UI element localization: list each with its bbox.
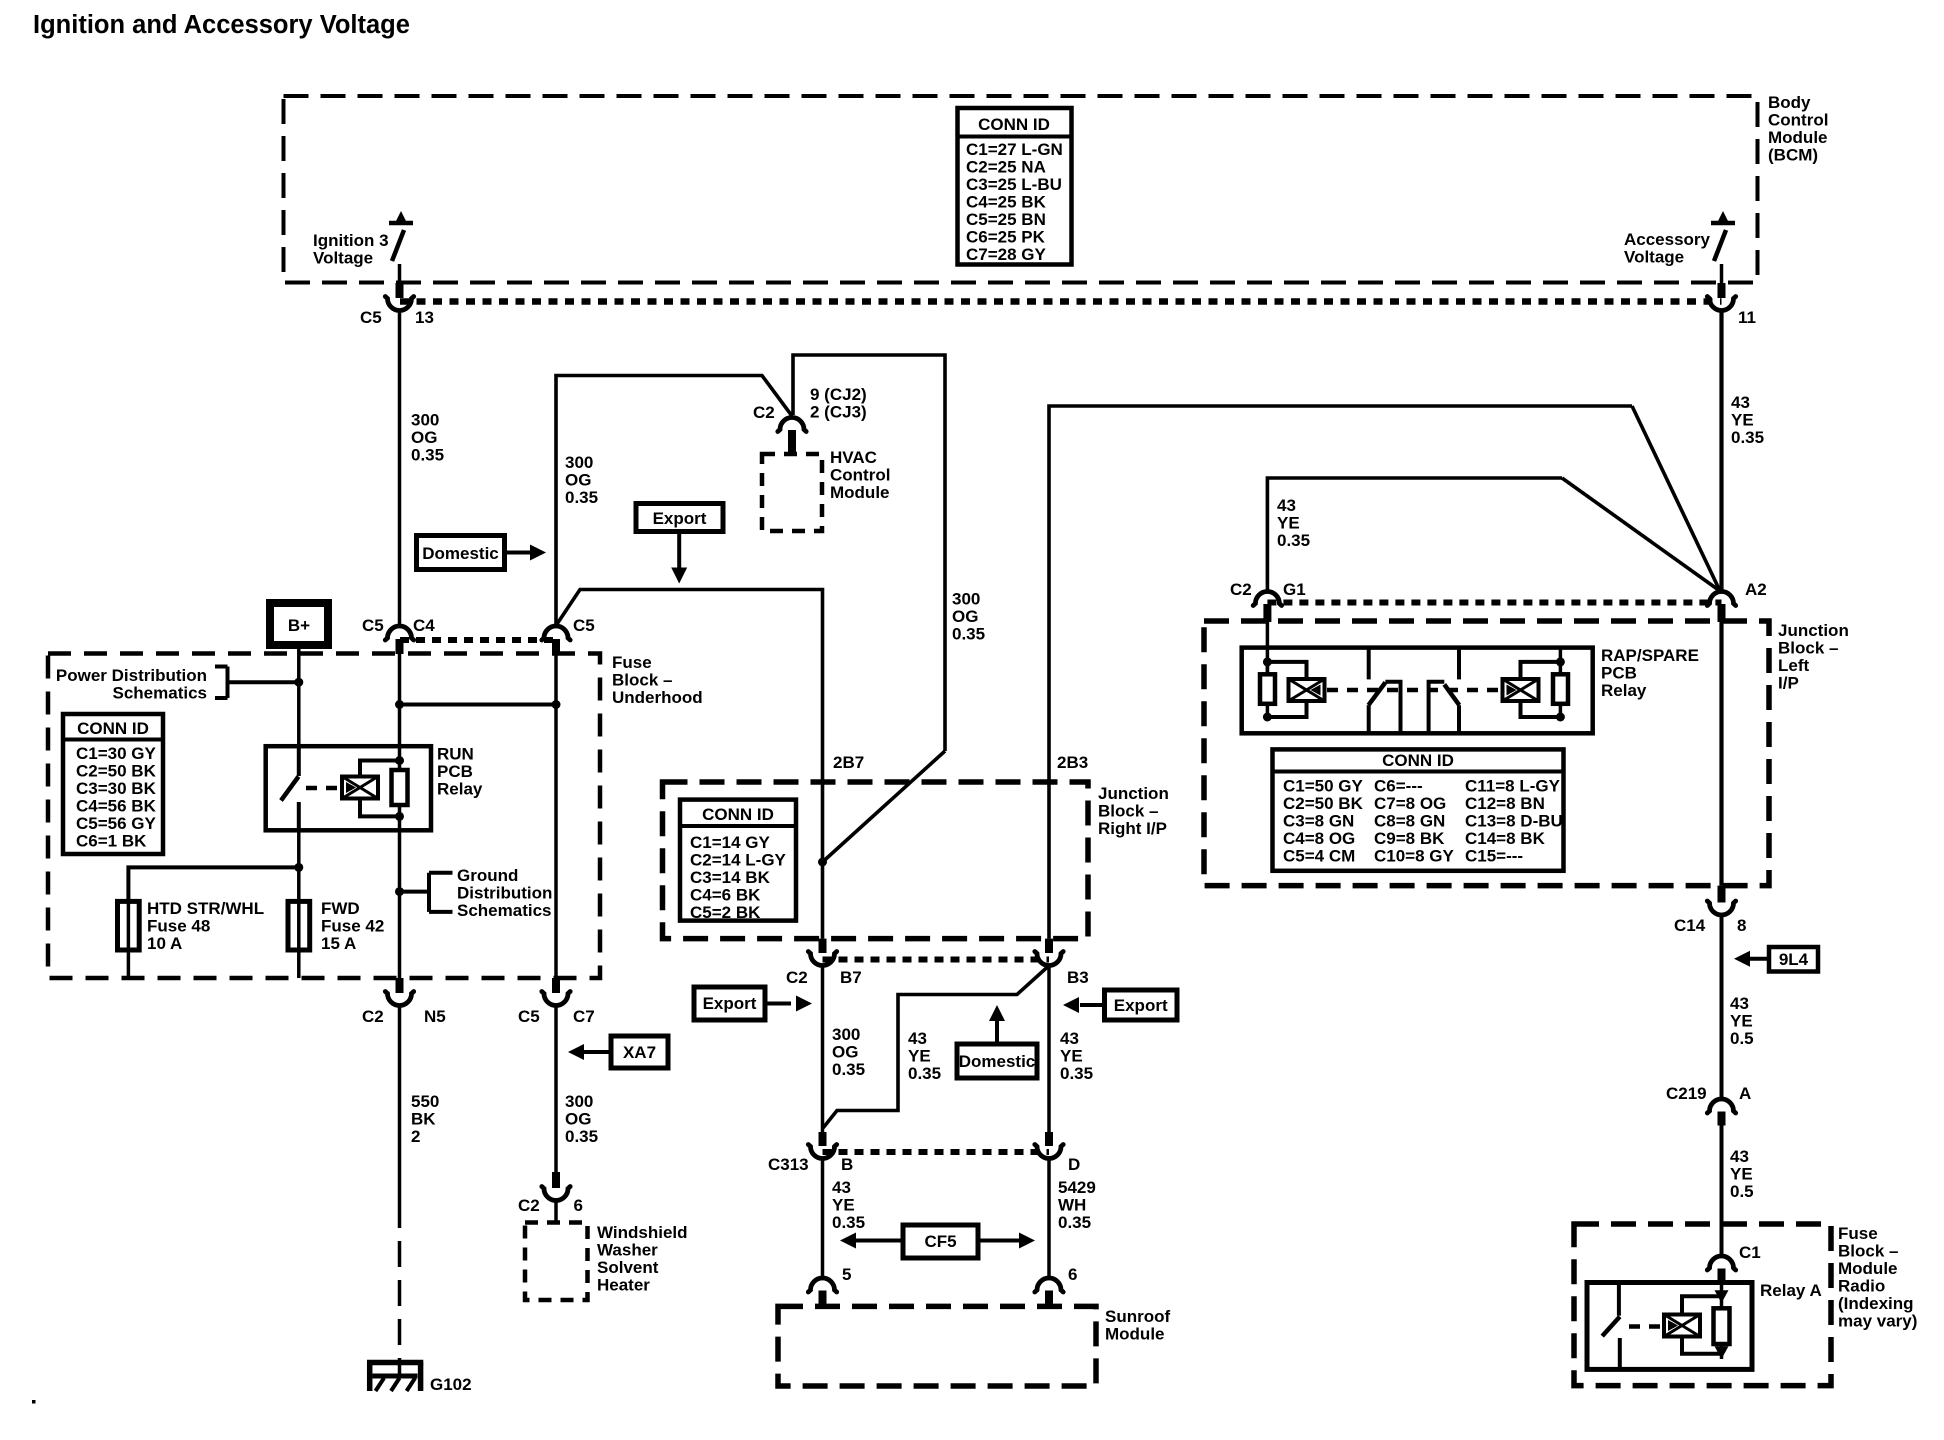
svg-text:11: 11	[1738, 308, 1756, 327]
svg-text:HTD STR/WHL: HTD STR/WHL	[147, 899, 264, 918]
svg-text:Module: Module	[1838, 1259, 1898, 1278]
wire B3 down to D	[1047, 966, 1051, 1133]
connector A2	[1707, 580, 1766, 622]
svg-text:Right I/P: Right I/P	[1098, 819, 1167, 838]
junction dot relay bottom	[395, 812, 404, 821]
RAP relay right coil	[1503, 679, 1539, 701]
stray scan speck	[32, 1400, 36, 1404]
RAP relay left coil links	[1267, 662, 1306, 717]
windshield washer solvent heater dashed box	[525, 1223, 588, 1301]
wire C5 down through fuse block	[554, 654, 558, 979]
svg-text:B: B	[841, 1155, 853, 1174]
svg-text:RAP/SPARE: RAP/SPARE	[1601, 646, 1699, 665]
flag Domestic (middle)	[957, 1005, 1037, 1078]
svg-text:C5: C5	[573, 616, 595, 635]
svg-text:15 A: 15 A	[321, 934, 356, 953]
svg-text:OG: OG	[565, 471, 591, 490]
svg-text:43: 43	[1277, 496, 1296, 515]
svg-text:C3=14 BK: C3=14 BK	[690, 868, 771, 887]
svg-text:C219: C219	[1666, 1084, 1707, 1103]
svg-text:Voltage: Voltage	[313, 249, 373, 268]
relay A coil	[1664, 1315, 1700, 1337]
junction dot bridge right	[552, 700, 561, 709]
svg-text:G1: G1	[1283, 580, 1306, 599]
svg-text:300: 300	[565, 453, 593, 472]
wire 300 OG from C5-13 down to fuse block	[398, 311, 402, 627]
svg-text:C2=50 BK: C2=50 BK	[76, 762, 157, 781]
svg-text:0.35: 0.35	[565, 488, 598, 507]
svg-text:Block –: Block –	[1838, 1242, 1898, 1261]
B+ box	[270, 603, 328, 645]
svg-text:Block –: Block –	[1098, 802, 1158, 821]
connector C5 / C4 at fuse block top	[362, 616, 435, 654]
svg-text:Sunroof: Sunroof	[1105, 1307, 1170, 1326]
wire 300 OG from C5-C7 down	[554, 1006, 558, 1175]
svg-text:43: 43	[1730, 994, 1749, 1013]
svg-text:43: 43	[1060, 1029, 1079, 1048]
HVAC control module dashed box	[762, 454, 822, 531]
RUN relay switch	[281, 746, 299, 830]
connector C2 / N5 at fuse block bottom	[362, 978, 446, 1026]
svg-text:5: 5	[842, 1265, 851, 1284]
svg-text:C7=28 GY: C7=28 GY	[966, 245, 1047, 264]
svg-text:0.5: 0.5	[1730, 1182, 1754, 1201]
RUN PCB relay box	[266, 746, 431, 830]
wire through HTD fuse to box bottom	[127, 901, 131, 978]
svg-text:B3: B3	[1067, 968, 1089, 987]
svg-text:G102: G102	[430, 1375, 472, 1394]
svg-text:C3=25 L-BU: C3=25 L-BU	[966, 175, 1062, 194]
svg-text:CF5: CF5	[924, 1232, 956, 1251]
sunroof connector face dotted line	[823, 1149, 1050, 1155]
svg-text:C313: C313	[768, 1155, 809, 1174]
svg-text:5429: 5429	[1058, 1178, 1096, 1197]
svg-text:YE: YE	[1277, 514, 1300, 533]
flag CF5 double arrow	[840, 1225, 1035, 1258]
flag Export (middle)	[694, 987, 812, 1020]
svg-text:300: 300	[952, 590, 980, 609]
svg-text:C13=8 D-BU: C13=8 D-BU	[1465, 812, 1563, 831]
svg-text:C5: C5	[360, 308, 382, 327]
svg-text:YE: YE	[1731, 411, 1754, 430]
svg-text:OG: OG	[565, 1110, 591, 1129]
svg-text:YE: YE	[908, 1047, 931, 1066]
svg-text:C5=2 BK: C5=2 BK	[690, 903, 761, 922]
svg-text:0.35: 0.35	[832, 1213, 865, 1232]
relay A actuator dashed line	[1629, 1324, 1663, 1329]
svg-text:Relay: Relay	[1601, 681, 1647, 700]
svg-text:Schematics: Schematics	[113, 684, 208, 703]
svg-text:CONN ID: CONN ID	[77, 719, 149, 738]
junction dot export join	[818, 858, 827, 867]
junction right connector face dotted line	[823, 957, 1050, 963]
wire B+ down into fuse block	[297, 645, 301, 746]
relay A resistor	[1714, 1308, 1730, 1344]
svg-text:0.35: 0.35	[908, 1064, 941, 1083]
svg-text:10 A: 10 A	[147, 934, 182, 953]
svg-text:C5: C5	[518, 1007, 540, 1026]
RAP relay left coil	[1289, 679, 1325, 701]
svg-text:B7: B7	[840, 968, 862, 987]
svg-text:YE: YE	[1730, 1165, 1753, 1184]
svg-text:CONN ID: CONN ID	[1382, 751, 1454, 770]
RAP relay right resistor	[1553, 674, 1568, 704]
svg-text:Block –: Block –	[1778, 639, 1838, 658]
svg-text:Relay: Relay	[437, 780, 483, 799]
svg-text:A: A	[1739, 1084, 1751, 1103]
connector D	[1035, 1132, 1080, 1174]
wire C14 down to C219	[1720, 915, 1724, 1099]
svg-text:300: 300	[411, 411, 439, 430]
flag 9L4	[1734, 947, 1818, 972]
svg-text:Junction: Junction	[1098, 784, 1169, 803]
wire bridge between C4 and C5 verticals	[400, 703, 557, 707]
wire A2 down through junction block	[1719, 622, 1723, 886]
svg-text:2B7: 2B7	[833, 753, 864, 772]
svg-text:Ignition and Accessory Voltage: Ignition and Accessory Voltage	[33, 11, 410, 39]
svg-text:B+: B+	[288, 616, 310, 635]
svg-text:I/P: I/P	[1778, 674, 1799, 693]
junction dots RAP right	[1556, 657, 1565, 666]
fuse HTD STR/WHL Fuse 48 10 A	[118, 901, 140, 950]
svg-text:may vary): may vary)	[1838, 1312, 1917, 1331]
svg-text:C4=8 OG: C4=8 OG	[1283, 829, 1355, 848]
fuse block top connector face dotted line	[400, 637, 556, 643]
svg-text:C2: C2	[1230, 580, 1252, 599]
svg-text:43: 43	[1731, 393, 1750, 412]
svg-text:6: 6	[574, 1196, 583, 1215]
svg-text:C4=25 BK: C4=25 BK	[966, 193, 1047, 212]
svg-text:C14=8 BK: C14=8 BK	[1465, 829, 1546, 848]
svg-text:Washer: Washer	[597, 1241, 658, 1260]
svg-text:YE: YE	[1730, 1012, 1753, 1031]
svg-text:Domestic: Domestic	[959, 1052, 1036, 1071]
svg-text:Power Distribution: Power Distribution	[56, 666, 207, 685]
wire from C5 fuse block up and over to HVAC C2 (domestic)	[556, 376, 792, 627]
svg-text:C6=1 BK: C6=1 BK	[76, 832, 147, 851]
connector C14 / 8	[1674, 886, 1746, 935]
relay A switch	[1602, 1283, 1620, 1370]
svg-text:Relay A: Relay A	[1760, 1281, 1822, 1300]
connector C5 at fuse block top (second)	[542, 616, 595, 654]
body control module BCM dashed box	[284, 96, 1758, 283]
svg-text:C12=8 BN: C12=8 BN	[1465, 794, 1545, 813]
flag Export (right middle)	[1063, 990, 1177, 1020]
svg-text:2B3: 2B3	[1057, 753, 1088, 772]
wire branch to HTD fuse	[128, 867, 298, 901]
svg-text:C5=4 CM: C5=4 CM	[1283, 847, 1355, 866]
connector C2 / 6 of washer heater	[518, 1172, 583, 1224]
svg-text:Left: Left	[1778, 656, 1810, 675]
RAP relay switch 2	[1429, 648, 1460, 734]
svg-text:Block –: Block –	[612, 671, 672, 690]
RUN relay resistor	[392, 770, 408, 805]
wire dashed lower part to ground	[398, 1241, 402, 1360]
svg-text:C8=8 GN: C8=8 GN	[1374, 812, 1445, 831]
svg-text:C5=25 BN: C5=25 BN	[966, 210, 1046, 229]
svg-text:C5=56 GY: C5=56 GY	[76, 814, 157, 833]
svg-text:0.35: 0.35	[411, 446, 444, 465]
svg-text:C9=8 BK: C9=8 BK	[1374, 829, 1445, 848]
svg-text:Control: Control	[1768, 111, 1828, 130]
wire D down to sunroof pin 6	[1047, 1159, 1051, 1279]
svg-text:HVAC: HVAC	[830, 448, 877, 467]
connector B3	[1035, 939, 1089, 987]
RAP relay right coil links	[1521, 662, 1561, 717]
connector C2 / B7	[786, 939, 862, 987]
svg-text:C3=30 BK: C3=30 BK	[76, 779, 157, 798]
svg-text:WH: WH	[1058, 1196, 1086, 1215]
connector C5 pin 13	[360, 283, 434, 327]
svg-text:C7: C7	[573, 1007, 595, 1026]
svg-text:8: 8	[1737, 916, 1746, 935]
svg-text:C5: C5	[362, 616, 384, 635]
svg-text:C1=50 GY: C1=50 GY	[1283, 777, 1364, 796]
svg-text:0.35: 0.35	[832, 1060, 865, 1079]
wire diagonal to A2 (from 478 line)	[1562, 478, 1720, 591]
svg-text:Underhood: Underhood	[612, 688, 703, 707]
connector C313 / B	[768, 1132, 853, 1174]
svg-text:Fuse 48: Fuse 48	[147, 917, 210, 936]
junction block right I/P dashed box	[663, 782, 1089, 939]
svg-text:Export: Export	[703, 994, 757, 1013]
svg-text:YE: YE	[832, 1196, 855, 1215]
svg-text:2 (CJ3): 2 (CJ3)	[810, 403, 867, 422]
svg-text:300: 300	[565, 1092, 593, 1111]
svg-text:9L4: 9L4	[1779, 950, 1809, 969]
RUN relay coil	[342, 777, 378, 799]
RAP relay left resistor wire	[1266, 662, 1270, 717]
svg-text:0.35: 0.35	[1731, 428, 1764, 447]
RUN relay in-line resistor wire	[398, 747, 402, 830]
power distribution bracket	[215, 667, 299, 699]
svg-text:Fuse: Fuse	[612, 653, 652, 672]
svg-text:Distribution: Distribution	[457, 884, 552, 903]
junction dot ground bracket	[395, 887, 404, 896]
svg-text:Control: Control	[830, 466, 890, 485]
svg-text:Voltage: Voltage	[1624, 248, 1684, 267]
svg-text:43: 43	[908, 1029, 927, 1048]
svg-text:Fuse: Fuse	[1838, 1224, 1878, 1243]
svg-text:9 (CJ2): 9 (CJ2)	[810, 385, 867, 404]
RAP/SPARE PCB relay box	[1242, 648, 1593, 734]
junction right CONN ID table	[680, 800, 796, 922]
RAP relay switch 1	[1368, 648, 1400, 734]
fuse FWD Fuse 42 15 A	[288, 901, 310, 950]
svg-text:C2: C2	[518, 1196, 540, 1215]
junction arrow relay A bottom	[1715, 1346, 1729, 1359]
svg-text:RUN: RUN	[437, 745, 474, 764]
connector pin 6	[1035, 1265, 1078, 1307]
wire G1 into relay	[1266, 622, 1270, 675]
wire B7 down to C313	[821, 966, 825, 1133]
RUN relay coil to wire links	[360, 761, 400, 817]
svg-text:43: 43	[1730, 1147, 1749, 1166]
accessory voltage switch symbol	[1711, 211, 1735, 284]
svg-text:C1=14 GY: C1=14 GY	[690, 833, 771, 852]
flag XA7	[568, 1036, 668, 1068]
wire through FWD fuse to box bottom	[297, 901, 301, 978]
svg-text:550: 550	[411, 1092, 439, 1111]
junction dot relay top	[395, 756, 404, 765]
junction arrow relay A top	[1715, 1290, 1729, 1303]
wire C313 down to sunroof pin 5	[821, 1159, 825, 1279]
svg-text:C2: C2	[753, 403, 775, 422]
RAP relay right resistor wire	[1559, 648, 1563, 717]
svg-text:OG: OG	[832, 1043, 858, 1062]
svg-text:Domestic: Domestic	[422, 544, 499, 563]
junction dot fuse branch	[294, 863, 303, 872]
wire B+ relay bottom to fuse branch	[297, 830, 301, 901]
junction dot bridge left	[395, 700, 404, 709]
svg-text:Export: Export	[653, 509, 707, 528]
BCM connector face dotted line	[400, 298, 1722, 305]
svg-text:C15=---: C15=---	[1465, 847, 1523, 866]
wire diagonal to A2 (from 406 line)	[1632, 406, 1720, 591]
ignition 3 voltage switch symbol	[389, 211, 413, 284]
RAP CONN ID table	[1273, 749, 1564, 870]
svg-text:C1=27 L-GN: C1=27 L-GN	[966, 140, 1063, 159]
svg-text:Module: Module	[1768, 128, 1828, 147]
wire C4 down through fuse block to relay	[398, 654, 402, 748]
svg-text:0.35: 0.35	[1277, 531, 1310, 550]
svg-text:A2: A2	[1745, 580, 1767, 599]
svg-text:C2: C2	[362, 1007, 384, 1026]
connector C219 / A	[1666, 1084, 1751, 1126]
ground distribution bracket	[400, 873, 453, 912]
wire 550 BK down from C2-N5	[398, 1006, 402, 1229]
svg-text:13: 13	[415, 308, 434, 327]
svg-text:Solvent: Solvent	[597, 1258, 659, 1277]
svg-text:OG: OG	[411, 428, 437, 447]
svg-text:0.35: 0.35	[1058, 1213, 1091, 1232]
wire domestic branch from B3 to C313	[823, 967, 1048, 1129]
svg-text:FWD: FWD	[321, 899, 360, 918]
RUN relay actuator dashed line	[306, 786, 340, 791]
svg-text:43: 43	[832, 1178, 851, 1197]
svg-text:CONN ID: CONN ID	[702, 805, 774, 824]
svg-text:C10=8 GY: C10=8 GY	[1374, 847, 1455, 866]
svg-text:Accessory: Accessory	[1624, 230, 1711, 249]
svg-text:Fuse 42: Fuse 42	[321, 917, 384, 936]
svg-text:Heater: Heater	[597, 1276, 650, 1295]
connector C2 of HVAC control module	[753, 385, 867, 455]
left CONN ID table	[63, 714, 163, 854]
svg-text:C3=8 GN: C3=8 GN	[1283, 812, 1354, 831]
wire relay bottom to fuse box bottom	[398, 830, 402, 978]
svg-text:C4=6 BK: C4=6 BK	[690, 886, 761, 905]
svg-text:C4: C4	[413, 616, 435, 635]
fuse block module radio dashed box	[1574, 1224, 1831, 1386]
wire 43 YE from RAP G1 up and over to A2	[1267, 478, 1562, 592]
junction left connector face dotted line	[1267, 600, 1721, 606]
flag Domestic (upper)	[417, 536, 547, 570]
connector pin 5	[808, 1265, 851, 1307]
svg-text:Schematics: Schematics	[457, 901, 552, 920]
junction dot B+ / power distribution	[294, 678, 303, 687]
svg-text:Module: Module	[830, 483, 890, 502]
wire HVAC branch horizontal to vertical x945	[793, 355, 945, 751]
svg-text:XA7: XA7	[623, 1043, 656, 1062]
connector C1 of relay A	[1707, 1243, 1760, 1283]
svg-text:D: D	[1068, 1155, 1080, 1174]
svg-text:Body: Body	[1768, 93, 1811, 112]
svg-text:C7=8 OG: C7=8 OG	[1374, 794, 1446, 813]
wire export from C5 over to x822 vertical	[557, 590, 823, 939]
svg-text:Windshield: Windshield	[597, 1223, 688, 1242]
svg-text:C2=50 BK: C2=50 BK	[1283, 794, 1364, 813]
svg-text:PCB: PCB	[437, 762, 473, 781]
svg-text:YE: YE	[1060, 1047, 1083, 1066]
svg-text:C6=25 PK: C6=25 PK	[966, 228, 1046, 247]
svg-text:0.5: 0.5	[1730, 1029, 1754, 1048]
wire C219 down to fuse block radio	[1720, 1126, 1724, 1257]
svg-text:2: 2	[411, 1127, 420, 1146]
wire diagonal from x945 joining x822	[823, 751, 946, 862]
svg-text:C1=30 GY: C1=30 GY	[76, 744, 157, 763]
wire 43 YE from A2 over to B3 vertical	[1049, 406, 1632, 939]
connector C2 / G1	[1230, 580, 1306, 622]
flag Export (upper)	[636, 504, 723, 584]
connector C5 / C7 at fuse block bottom	[518, 978, 595, 1026]
svg-text:OG: OG	[952, 607, 978, 626]
RAP relay actuator dashed line	[1327, 688, 1503, 693]
svg-text:300: 300	[832, 1025, 860, 1044]
svg-text:0.35: 0.35	[952, 625, 985, 644]
fuse block underhood dashed box	[48, 654, 600, 979]
wire 43 YE from pin 11 down to A2	[1719, 311, 1723, 593]
svg-text:C2=25 NA: C2=25 NA	[966, 158, 1046, 177]
svg-text:N5: N5	[424, 1007, 446, 1026]
relay A coil links	[1682, 1296, 1722, 1354]
svg-text:PCB: PCB	[1601, 664, 1637, 683]
svg-text:C4=56 BK: C4=56 BK	[76, 797, 157, 816]
ground symbol G102	[367, 1360, 472, 1394]
svg-text:C2=14 L-GY: C2=14 L-GY	[690, 851, 787, 870]
svg-text:0.35: 0.35	[1060, 1064, 1093, 1083]
svg-text:(BCM): (BCM)	[1768, 146, 1818, 165]
svg-text:C11=8 L-GY: C11=8 L-GY	[1465, 777, 1561, 796]
junction dots RAP left	[1263, 657, 1272, 666]
svg-text:CONN ID: CONN ID	[978, 115, 1050, 134]
svg-text:Module: Module	[1105, 1325, 1165, 1344]
junction block left I/P dashed box	[1204, 621, 1769, 886]
svg-text:C1: C1	[1739, 1243, 1761, 1262]
relay A box	[1587, 1283, 1752, 1370]
svg-text:C2: C2	[786, 968, 808, 987]
svg-text:Radio: Radio	[1838, 1277, 1885, 1296]
svg-text:C6=---: C6=---	[1374, 777, 1423, 796]
connector pin 11	[1707, 283, 1756, 327]
svg-text:C14: C14	[1674, 916, 1706, 935]
svg-text:6: 6	[1068, 1265, 1077, 1284]
svg-text:(Indexing: (Indexing	[1838, 1294, 1914, 1313]
svg-text:Ground: Ground	[457, 866, 518, 885]
RAP relay left resistor	[1260, 674, 1275, 704]
svg-text:Junction: Junction	[1778, 621, 1849, 640]
svg-text:BK: BK	[411, 1110, 436, 1129]
svg-text:0.35: 0.35	[565, 1127, 598, 1146]
relay A resistor wire	[1720, 1283, 1724, 1359]
svg-text:Export: Export	[1114, 996, 1168, 1015]
sunroof module dashed box	[778, 1306, 1096, 1386]
svg-text:Ignition 3: Ignition 3	[313, 231, 389, 250]
BCM CONN ID table	[958, 108, 1072, 265]
